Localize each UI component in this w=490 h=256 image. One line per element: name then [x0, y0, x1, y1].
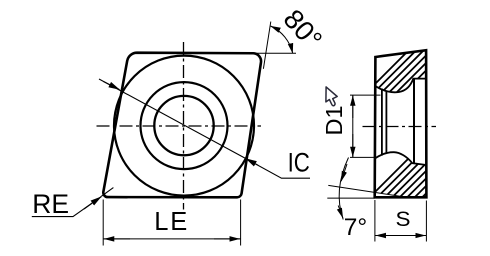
- S arrows: [376, 235, 396, 237]
- inscribed circle IC: [114, 56, 254, 196]
- LE extension lines: [103, 200, 240, 246]
- RE arrow: [84, 197, 101, 209]
- IC arrow lower: [246, 159, 258, 166]
- svg-text:RE: RE: [32, 189, 69, 219]
- counterbore circle: [141, 82, 228, 169]
- 7 deg arc arrows: [341, 164, 347, 181]
- svg-text:7°: 7°: [344, 214, 367, 241]
- 7 deg arc: [339, 158, 348, 220]
- RE leader: [32, 188, 114, 217]
- insert body (parallelogram with corner radii): [103, 53, 261, 198]
- IC arrow upper: [104, 82, 120, 90]
- hole wall left a: [381, 89, 383, 156]
- svg-text:IC: IC: [288, 149, 310, 178]
- D1 arrows: [352, 96, 354, 118]
- svg-text:LE: LE: [154, 208, 187, 236]
- D1 extension lines: [350, 95, 381, 157]
- IC diameter line: [99, 79, 310, 178]
- S extension lines: [375, 200, 427, 242]
- section outline: [375, 50, 427, 197]
- 7 deg line B: [327, 197, 375, 199]
- 80 deg extension lines: [256, 22, 296, 69]
- vertical center line: [183, 42, 185, 210]
- center line right: [363, 126, 437, 128]
- hole circle: [154, 96, 213, 155]
- hole wall left b: [385, 91, 387, 154]
- svg-text:D1: D1: [321, 105, 347, 135]
- top hatch: [354, 43, 484, 105]
- top countersink profile: [375, 79, 426, 93]
- hole wall right: [413, 79, 415, 163]
- mouse cursor: [326, 87, 337, 106]
- 7 deg line A: [328, 185, 400, 196]
- svg-text:S: S: [396, 208, 411, 231]
- bottom countersink profile: [375, 152, 426, 165]
- bottom hatch: [352, 140, 490, 215]
- LE arrows: [104, 238, 130, 240]
- horizontal center line: [97, 125, 262, 127]
